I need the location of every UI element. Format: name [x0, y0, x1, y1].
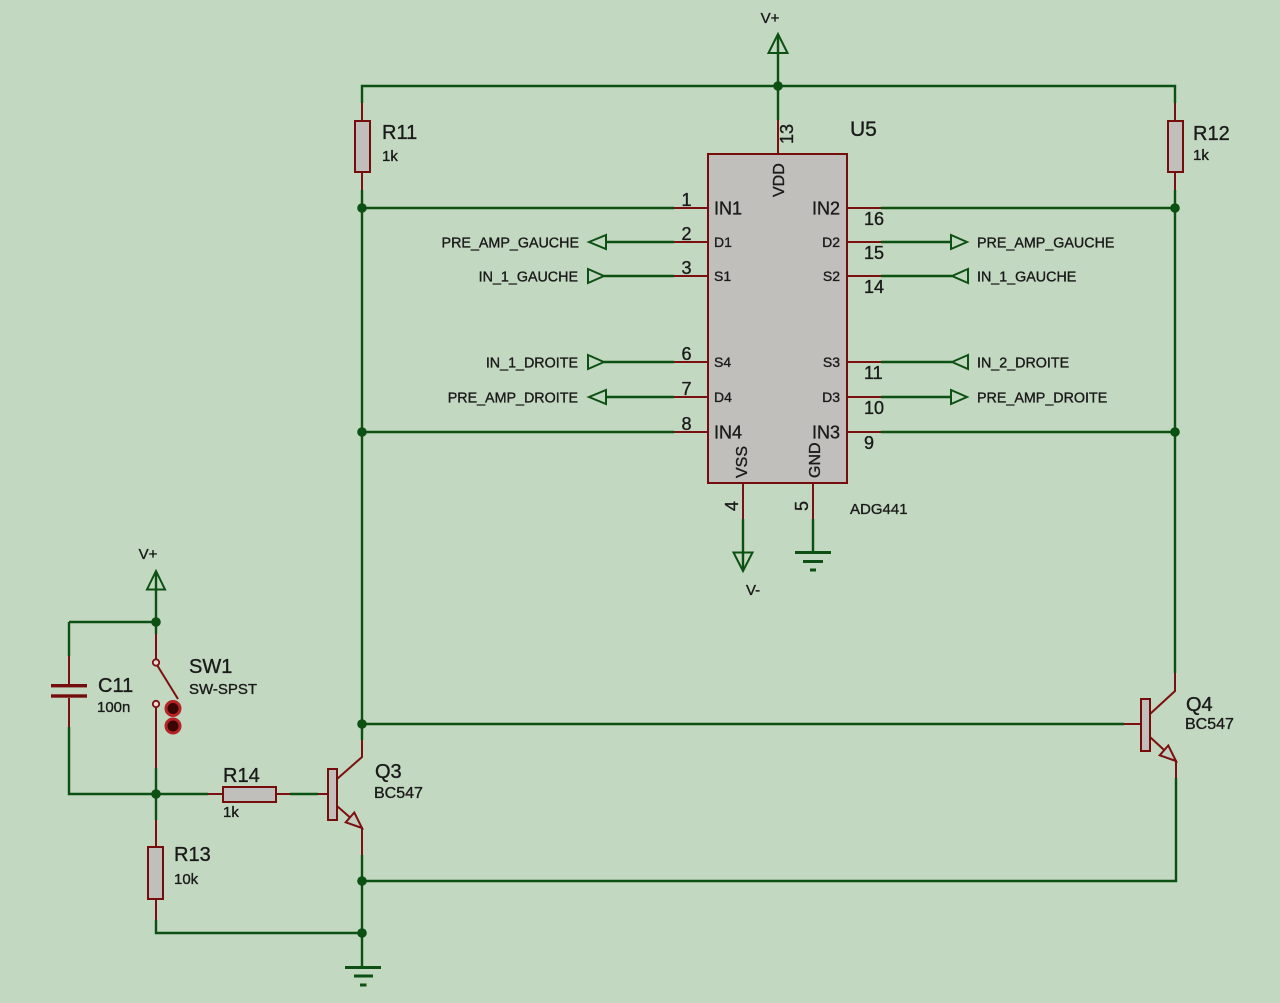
svg-text:S2: S2: [823, 268, 840, 284]
svg-text:IN_2_DROITE: IN_2_DROITE: [977, 356, 1069, 372]
svg-text:5: 5: [792, 501, 812, 511]
svg-text:IN4: IN4: [714, 423, 742, 443]
svg-text:8: 8: [681, 414, 691, 434]
svg-text:D2: D2: [822, 234, 840, 250]
svg-text:IN_1_DROITE: IN_1_DROITE: [486, 356, 578, 372]
svg-text:VDD: VDD: [771, 163, 788, 197]
svg-text:2: 2: [681, 224, 691, 244]
svg-text:6: 6: [681, 344, 691, 364]
svg-text:R13: R13: [174, 844, 211, 866]
svg-text:PRE_AMP_GAUCHE: PRE_AMP_GAUCHE: [442, 236, 579, 252]
svg-text:ADG441: ADG441: [850, 501, 908, 518]
svg-text:100n: 100n: [97, 699, 130, 716]
svg-text:IN_1_GAUCHE: IN_1_GAUCHE: [479, 270, 578, 286]
svg-text:GND: GND: [807, 442, 824, 478]
svg-text:C11: C11: [98, 675, 133, 697]
svg-text:D3: D3: [822, 389, 840, 405]
svg-text:Q4: Q4: [1186, 694, 1213, 716]
svg-text:IN3: IN3: [812, 423, 840, 443]
svg-text:15: 15: [864, 243, 884, 263]
svg-text:10: 10: [864, 398, 884, 418]
svg-text:PRE_AMP_GAUCHE: PRE_AMP_GAUCHE: [977, 236, 1114, 252]
svg-text:IN_1_GAUCHE: IN_1_GAUCHE: [977, 270, 1076, 286]
svg-text:16: 16: [864, 209, 884, 229]
svg-text:S4: S4: [714, 354, 731, 370]
svg-text:D1: D1: [714, 234, 732, 250]
svg-text:11: 11: [864, 363, 883, 383]
svg-text:4: 4: [722, 501, 742, 511]
svg-text:1k: 1k: [223, 804, 239, 821]
svg-text:IN2: IN2: [812, 199, 840, 219]
svg-text:14: 14: [864, 277, 884, 297]
svg-text:S3: S3: [823, 354, 840, 370]
svg-text:9: 9: [864, 433, 874, 453]
svg-text:V+: V+: [761, 10, 780, 27]
svg-text:10k: 10k: [174, 871, 199, 888]
svg-text:13: 13: [777, 124, 797, 144]
svg-text:IN1: IN1: [714, 199, 742, 219]
svg-text:V-: V-: [746, 582, 760, 599]
svg-text:SW1: SW1: [189, 656, 232, 678]
svg-text:R14: R14: [223, 765, 260, 787]
svg-text:1k: 1k: [382, 148, 398, 165]
svg-text:7: 7: [681, 379, 691, 399]
svg-text:R11: R11: [382, 122, 417, 144]
svg-text:V+: V+: [139, 546, 158, 563]
svg-text:D4: D4: [714, 389, 732, 405]
svg-text:3: 3: [681, 258, 691, 278]
svg-text:PRE_AMP_DROITE: PRE_AMP_DROITE: [977, 391, 1107, 407]
svg-text:SW-SPST: SW-SPST: [189, 681, 257, 698]
svg-text:BC547: BC547: [374, 785, 423, 802]
svg-text:S1: S1: [714, 268, 731, 284]
svg-text:R12: R12: [1193, 123, 1230, 145]
svg-text:1k: 1k: [1193, 147, 1209, 164]
svg-text:VSS: VSS: [734, 446, 751, 478]
svg-text:PRE_AMP_DROITE: PRE_AMP_DROITE: [448, 391, 578, 407]
svg-text:U5: U5: [850, 118, 877, 141]
svg-text:BC547: BC547: [1185, 716, 1234, 733]
svg-text:Q3: Q3: [375, 761, 402, 783]
svg-text:1: 1: [681, 190, 691, 210]
